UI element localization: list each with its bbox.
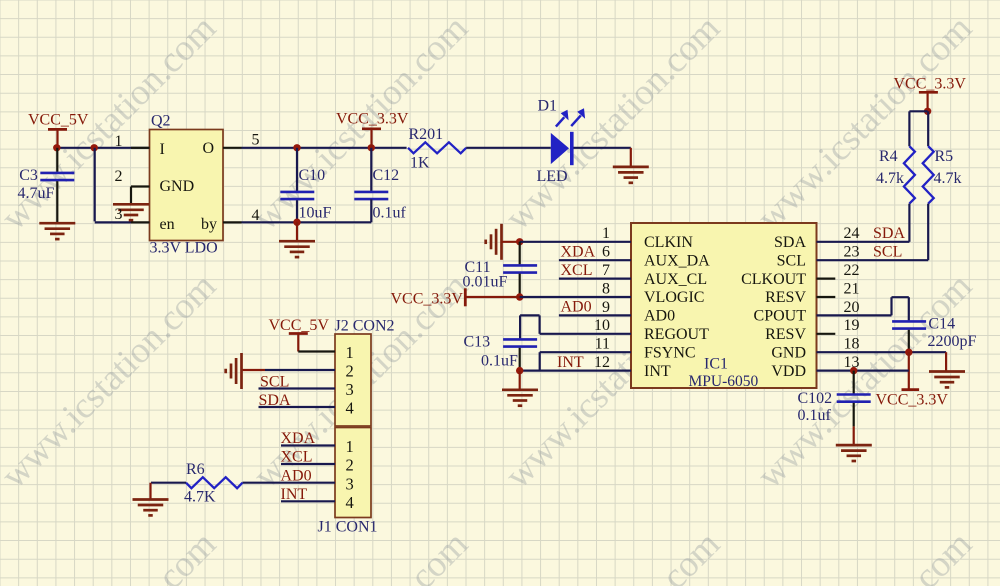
IC1 pin 8 number (602, 280, 610, 297)
wire XDA to J1 pin1 (281, 430, 336, 447)
svg-text:J2 CON2: J2 CON2 (335, 318, 395, 335)
svg-text:C14: C14 (928, 316, 955, 333)
svg-text:11: 11 (595, 336, 610, 353)
IC1 pin 24 name SDA (774, 234, 806, 251)
svg-text:R5: R5 (935, 148, 954, 165)
svg-text:1: 1 (346, 437, 354, 456)
stub pin 21 (817, 296, 836, 298)
Q2 label en (160, 216, 175, 233)
IC1 pin 9 name AD0 (644, 308, 675, 325)
svg-text:R6: R6 (186, 461, 205, 478)
svg-text:AUX_CL: AUX_CL (644, 271, 707, 288)
svg-text:LED: LED (537, 168, 568, 185)
junction dot at enable-branch tap (91, 144, 98, 151)
wire REGOUT with jog to C13 (520, 315, 631, 338)
ground right of C14 (929, 352, 965, 387)
svg-text:0.1uf: 0.1uf (373, 205, 407, 222)
svg-text:INT: INT (281, 486, 308, 503)
IC1 pin 6 number (602, 244, 610, 261)
J2 pin 1 number (346, 343, 354, 362)
IC1 pin 11 number (595, 336, 610, 353)
junction dot at C13 bottom (516, 367, 523, 374)
capacitor C10 (280, 148, 331, 222)
IC1 pin 21 name RESV (765, 289, 806, 306)
power flag VCC_3.3V (top-right) (894, 76, 967, 112)
J1 pin 3 number (346, 474, 354, 493)
svg-text:RESV: RESV (765, 326, 806, 343)
svg-text:AD0: AD0 (561, 299, 592, 316)
wire J2 pin1 to VCC (298, 350, 335, 352)
wire INT to J1 pin4 (281, 486, 336, 503)
IC1 pin 1 number (602, 225, 610, 242)
svg-text:1: 1 (115, 133, 123, 150)
svg-text:4.7k: 4.7k (934, 170, 962, 187)
IC1 pin 22 name CLKOUT (741, 271, 806, 288)
power flag VCC_3.3V (at VDD, inverted) (876, 352, 949, 408)
svg-text:VCC_3.3V: VCC_3.3V (336, 111, 409, 128)
junction dot at C11 top (516, 238, 523, 245)
svg-text:RESV: RESV (765, 289, 806, 306)
svg-text:CPOUT: CPOUT (754, 308, 807, 325)
svg-text:by: by (201, 216, 217, 233)
Q2 pin 2 (115, 168, 150, 203)
svg-text:GND: GND (160, 178, 195, 195)
svg-text:CLKOUT: CLKOUT (741, 271, 806, 288)
capacitor C12 (354, 148, 406, 222)
svg-text:VCC_3.3V: VCC_3.3V (391, 291, 464, 308)
svg-text:AD0: AD0 (644, 308, 675, 325)
svg-text:1K: 1K (410, 155, 430, 172)
svg-text:C3: C3 (19, 167, 38, 184)
svg-text:D1: D1 (538, 98, 558, 115)
resistor R201 (408, 126, 466, 172)
wire R6 to ground (151, 483, 187, 499)
svg-text:0.1uf: 0.1uf (798, 407, 832, 424)
wire SDA to J2 pin4 (259, 392, 336, 409)
svg-text:SCL: SCL (873, 244, 902, 261)
IC1 pin 13 name VDD (771, 363, 806, 380)
IC1 pin 21 number (844, 280, 860, 297)
svg-text:CLKIN: CLKIN (644, 234, 693, 251)
junction dot at C10 top (293, 144, 300, 151)
svg-text:O: O (203, 140, 215, 157)
Q2 pin 5 (223, 132, 260, 149)
junction dot at C10 bottom (293, 219, 300, 226)
wire SCL to J2 pin3 (259, 374, 336, 391)
svg-text:3.3V LDO: 3.3V LDO (150, 240, 218, 257)
svg-text:2: 2 (346, 456, 354, 475)
wire Q2 out to R201 (242, 147, 407, 149)
power flag VCC_3.3V (at VLOGIC) (391, 288, 520, 307)
svg-text:4.7k: 4.7k (876, 170, 904, 187)
Q2 label O (203, 140, 215, 157)
ground right of LED (613, 148, 649, 183)
svg-text:SDA: SDA (774, 234, 806, 251)
svg-text:XDA: XDA (561, 243, 596, 260)
IC1 pin 11 name FSYNC (644, 344, 696, 361)
resistor R5 (923, 146, 962, 203)
connector J1 CON1 box (318, 428, 378, 536)
junction dot at C11 bottom (516, 293, 523, 300)
svg-text:R201: R201 (409, 126, 444, 143)
wire Q2 pin4 to caps bottom (242, 199, 372, 222)
Q2 pin 1 (115, 133, 150, 150)
svg-text:0.1uF: 0.1uF (481, 353, 518, 370)
svg-text:12: 12 (594, 354, 610, 371)
svg-text:4.7K: 4.7K (184, 489, 216, 506)
IC1 pin 18 name GND (771, 344, 806, 361)
svg-text:XDA: XDA (281, 430, 316, 447)
junction dot at R4/R5 top (924, 108, 931, 115)
svg-text:8: 8 (602, 280, 610, 297)
connector J2 CON2 box (335, 318, 395, 427)
IC1 pin 24 number (844, 225, 860, 242)
svg-text:en: en (160, 216, 175, 233)
LED D1 (537, 98, 586, 186)
Q2 label I (160, 141, 165, 158)
wire XDA (AUX_DA) (559, 243, 631, 260)
svg-text:SDA: SDA (259, 392, 291, 409)
wire VCC_5V to Q2 pin1 (58, 147, 150, 149)
svg-text:2: 2 (346, 362, 354, 381)
svg-text:10uF: 10uF (299, 205, 332, 222)
IC1 pin 19 number (844, 317, 860, 334)
wire enable branch (VCC to Q2 pin3) (95, 148, 131, 223)
ground under C102 (836, 426, 872, 461)
svg-text:I: I (160, 141, 165, 158)
svg-text:XCL: XCL (281, 449, 313, 466)
svg-text:SCL: SCL (260, 374, 289, 391)
IC1 pin 18 number (844, 336, 860, 353)
ground at Q2 pin 2 (113, 204, 149, 220)
svg-text:5: 5 (252, 132, 260, 149)
svg-text:INT: INT (557, 354, 584, 371)
svg-text:VCC_3.3V: VCC_3.3V (894, 76, 967, 93)
IC1 pin 12 name INT (644, 363, 671, 380)
wire R201 to D1 (466, 147, 551, 149)
ground under C3 (39, 223, 75, 239)
capacitor C102 (798, 371, 871, 427)
svg-text:INT: INT (644, 363, 671, 380)
IC1 pin 10 number (594, 317, 610, 334)
svg-text:VCC_3.3V: VCC_3.3V (876, 392, 949, 409)
wire AD0 to J1 pin3 (243, 467, 336, 484)
capacitor C3 (18, 148, 75, 223)
wire INT (520, 354, 631, 371)
wire GND (pin18) (817, 351, 947, 353)
IC1 pin 22 number (844, 262, 860, 279)
wire FSYNC with jog to INT (540, 352, 631, 370)
capacitor C14 (892, 316, 976, 353)
svg-text:1: 1 (346, 343, 354, 362)
svg-text:J1 CON1: J1 CON1 (318, 519, 378, 536)
J2 pin 2 number (346, 362, 354, 381)
svg-text:2: 2 (115, 168, 123, 185)
J2 pin 4 number (346, 399, 354, 418)
wire XCL (AUX_CL) (559, 262, 631, 279)
svg-text:21: 21 (844, 280, 860, 297)
svg-text:C13: C13 (464, 334, 491, 351)
IC1 pin 19 name RESV (765, 326, 806, 343)
wire XCL to J1 pin2 (281, 449, 336, 466)
svg-text:4: 4 (346, 493, 354, 512)
svg-text:4.7uF: 4.7uF (18, 185, 55, 202)
IC U1 MPU-6050 box (631, 223, 817, 390)
wire VCC to R5 (927, 111, 929, 146)
svg-text:2200pF: 2200pF (928, 333, 977, 350)
J1 pin 2 number (346, 456, 354, 475)
svg-text:4: 4 (346, 399, 354, 418)
wire VLOGIC (520, 296, 631, 298)
junction dot at C12/VCC tap (368, 144, 375, 151)
svg-text:3: 3 (346, 380, 354, 399)
J2 pin 3 number (346, 380, 354, 399)
junction dot at C102 tap (850, 367, 857, 374)
stub pin 19 (817, 333, 836, 335)
svg-text:AD0: AD0 (281, 467, 312, 484)
power flag VCC_5V (at J2) (269, 317, 330, 352)
wire CLKIN (520, 241, 631, 243)
ground under C13 (502, 371, 538, 406)
IC1 pin 1 name CLKIN (644, 234, 693, 251)
IC1 pin 20 number (844, 299, 860, 316)
svg-text:24: 24 (844, 225, 860, 242)
capacitor C13 (464, 334, 538, 371)
svg-text:Q2: Q2 (151, 113, 171, 130)
svg-text:20: 20 (844, 299, 860, 316)
wire J2 pin2 to ground (242, 369, 336, 371)
svg-text:IC1: IC1 (704, 356, 728, 373)
svg-text:22: 22 (844, 262, 860, 279)
svg-text:1: 1 (602, 225, 610, 242)
ground at IC pin 1 (CLKIN) (486, 224, 520, 260)
svg-text:VCC_5V: VCC_5V (269, 317, 330, 334)
J1 pin 4 number (346, 493, 354, 512)
svg-text:R4: R4 (879, 148, 898, 165)
svg-text:0.01uF: 0.01uF (463, 274, 508, 291)
IC1 pin 10 name REGOUT (644, 326, 709, 343)
wire AD0 (559, 299, 631, 316)
IC1 pin 6 name AUX_DA (644, 252, 710, 269)
svg-text:VLOGIC: VLOGIC (644, 289, 704, 306)
svg-text:3: 3 (346, 474, 354, 493)
wire D1 cathode to ground (574, 147, 631, 149)
Q2 label GND (160, 178, 195, 195)
IC1 pin 23 name SCL (777, 252, 806, 269)
resistor R4 (876, 146, 915, 203)
IC1 pin 23 number (844, 244, 860, 261)
IC1 pin 7 number (602, 262, 610, 279)
IC1 pin 9 number (602, 299, 610, 316)
IC1 pin 13 number (844, 354, 860, 371)
svg-text:REGOUT: REGOUT (644, 326, 709, 343)
IC1 pin 12 number (594, 354, 610, 371)
Q2 label by (201, 216, 217, 233)
svg-text:18: 18 (844, 336, 860, 353)
ground under R6 (133, 500, 169, 516)
svg-text:C12: C12 (373, 167, 400, 184)
Q2 pin 4 (223, 207, 260, 224)
wire CPOUT (pin20) to C14 (817, 297, 909, 320)
svg-text:MPU-6050: MPU-6050 (689, 373, 759, 390)
junction dot at C3 tap (53, 144, 60, 151)
svg-text:10: 10 (594, 317, 610, 334)
svg-text:SCL: SCL (777, 252, 806, 269)
svg-text:VDD: VDD (771, 363, 806, 380)
wire R5 to SCL (927, 204, 929, 261)
svg-text:GND: GND (771, 344, 806, 361)
svg-text:3: 3 (115, 206, 123, 223)
svg-text:AUX_DA: AUX_DA (644, 252, 710, 269)
J1 pin 1 number (346, 437, 354, 456)
svg-text:FSYNC: FSYNC (644, 344, 696, 361)
IC1 pin 7 name AUX_CL (644, 271, 707, 288)
wire SCL (pin23) to R5 (817, 244, 929, 261)
Q2 pin 3 (115, 206, 150, 223)
svg-text:C102: C102 (798, 390, 833, 407)
svg-text:XCL: XCL (561, 262, 593, 279)
IC1 pin 8 name VLOGIC (644, 289, 704, 306)
svg-text:9: 9 (602, 299, 610, 316)
junction dot at C14 bottom / GND (905, 349, 912, 356)
svg-text:7: 7 (602, 262, 610, 279)
stub pin 22 (817, 278, 836, 280)
svg-text:19: 19 (844, 317, 860, 334)
svg-text:SDA: SDA (873, 225, 905, 242)
capacitor C11 (463, 242, 538, 297)
svg-text:6: 6 (602, 244, 610, 261)
wire SDA (pin24) to R4 (817, 225, 910, 242)
power flag VCC_3.3V (at C12) (336, 111, 409, 148)
wire VCC to R4 (909, 111, 927, 146)
svg-text:23: 23 (844, 244, 860, 261)
power flag VCC_5V (top-left) (28, 112, 89, 148)
wire R4 to SDA (908, 204, 910, 242)
wire VDD (pin13) (817, 370, 909, 372)
resistor R6 (184, 461, 243, 506)
ground under C10 (279, 222, 315, 257)
voltage regulator Q2 box (150, 113, 224, 257)
IC1 pin 20 name CPOUT (754, 308, 807, 325)
svg-text:C10: C10 (299, 167, 326, 184)
svg-text:VCC_5V: VCC_5V (28, 112, 89, 129)
ground left of J2 pin2 (226, 353, 242, 389)
